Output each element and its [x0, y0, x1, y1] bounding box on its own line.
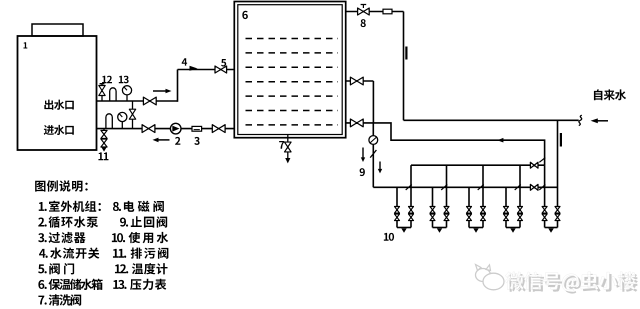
- wire outlet riser: [177, 70, 179, 102]
- wire faucet bottom group 5: [545, 227, 558, 229]
- label 8: [361, 19, 366, 27]
- solenoid valve 8: [358, 5, 370, 16]
- wire check-valve line lower: [372, 144, 374, 187]
- valve on tank-mid pipe: [350, 77, 363, 85]
- tap valve upper x483: [481, 207, 486, 214]
- watermark text highlight: [505, 272, 636, 292]
- tap valve upper x446: [444, 207, 449, 214]
- valve on hot manifold: [530, 162, 538, 168]
- legend item 过滤器: [38, 232, 85, 243]
- tap valve upper x397: [395, 207, 400, 214]
- thermometer (12) on outlet: [110, 88, 116, 101]
- flow arrow down (check line): [361, 148, 365, 163]
- wire inlet pipe: [96, 128, 234, 130]
- wire cold drop group 4: [505, 187, 507, 227]
- valve 5: [215, 66, 227, 73]
- label 13: [119, 76, 129, 84]
- legend item 阀门: [38, 263, 74, 274]
- legend item 排污阀: [113, 248, 168, 259]
- legend item 循环水: [38, 216, 98, 227]
- flow tick right (check line): [378, 162, 382, 174]
- tank water level dashes: [246, 39, 339, 125]
- label outlet 出水口: [44, 100, 73, 110]
- flow arrow right (outlet): [153, 89, 172, 94]
- tap valve upper x545: [542, 207, 547, 214]
- label 自来水: [594, 89, 626, 100]
- wire check-valve line upper: [372, 123, 374, 136]
- tap valve lower x520: [518, 214, 523, 221]
- wire hot drop group 3: [482, 165, 484, 227]
- wire pipe 4: [178, 69, 235, 71]
- check valve 9 flap: [370, 150, 376, 158]
- flow arrow on pipe 4: [190, 66, 198, 71]
- legend item 电磁阀: [113, 201, 164, 212]
- thermometer on inlet: [106, 114, 112, 129]
- pump 2: [170, 123, 181, 134]
- tap valve lower x411: [409, 214, 414, 221]
- outdoor unit U1 top cap: [32, 24, 83, 36]
- tap valve lower x469: [467, 214, 472, 221]
- faucet spout group 4: [510, 228, 515, 232]
- wire faucet bottom group 1: [397, 227, 411, 229]
- faucet spout group 5: [548, 228, 554, 232]
- valve on inlet pipe left: [142, 125, 155, 133]
- tank drain stub 7: [287, 135, 289, 143]
- legend item 保温储: [38, 279, 102, 290]
- tap water inlet arrow: [591, 118, 608, 123]
- tap valve upper x558: [555, 207, 560, 214]
- drain valve 11b: [101, 139, 107, 147]
- wire faucet bottom group 3: [469, 227, 483, 229]
- tank 6 outer wall: [234, 2, 345, 138]
- hop tick group 3: [478, 185, 484, 190]
- label 9: [360, 168, 365, 176]
- label 4: [182, 58, 187, 65]
- legend item 清洗阀: [38, 294, 81, 305]
- label 3: [194, 137, 199, 145]
- solenoid body: [383, 9, 392, 14]
- wire outlet pipe: [96, 100, 178, 102]
- tap valve lower x506: [504, 214, 509, 221]
- drain valve 11a: [101, 130, 107, 138]
- faucet spout group 3: [473, 228, 478, 232]
- wire cold drop group 1: [396, 187, 398, 227]
- tap valve lower x397: [395, 214, 400, 221]
- tap valve lower x432: [430, 214, 435, 221]
- faucet spout group 1: [401, 228, 406, 232]
- label 7: [279, 141, 284, 149]
- hop tick group 2: [441, 185, 447, 190]
- tap valve upper x432: [430, 207, 435, 214]
- valve on cold manifold: [530, 184, 538, 190]
- valve on tank-bottom pipe: [350, 119, 363, 127]
- tank 6 inner wall: [238, 5, 342, 135]
- tap valve lower x558: [555, 214, 560, 221]
- valve on inlet pipe right: [212, 125, 225, 133]
- legend item 室外机: [39, 201, 101, 212]
- tap valve upper x506: [504, 207, 509, 214]
- label 11: [98, 152, 108, 160]
- wire cold manifold: [373, 186, 557, 188]
- legend item 止回阀: [120, 216, 167, 227]
- wire hot drop group 2: [446, 165, 448, 227]
- wire faucet bottom group 4: [506, 227, 520, 229]
- hop tick at hot riser: [539, 158, 545, 163]
- wire cold drop from main: [557, 120, 559, 227]
- flow arrow left (inlet): [153, 138, 170, 143]
- wire tank-top pipe: [346, 11, 404, 13]
- check device circle: [369, 136, 378, 145]
- legend item 温度计: [115, 263, 168, 274]
- bypass valve: [129, 109, 135, 119]
- label 10: [384, 233, 394, 241]
- pressure gauge on inlet: [118, 112, 127, 128]
- flow tick on cold drop: [560, 133, 562, 147]
- drain stub 11: [103, 129, 105, 148]
- wire tank-bottom pipe: [346, 122, 374, 124]
- filter 3: [192, 126, 202, 131]
- wire hot branch: [373, 123, 544, 165]
- tap valve upper x411: [409, 207, 414, 214]
- wire cold drop group 2: [432, 187, 434, 227]
- pressure gauge (13) on outlet: [122, 86, 131, 101]
- flow tick on cold riser: [405, 47, 407, 60]
- legend item 压力表: [113, 279, 166, 290]
- wire hot drop group 4: [519, 165, 521, 227]
- hop tick group 5: [539, 185, 545, 190]
- wire tank-mid pipe: [346, 80, 374, 82]
- tank drain valve 7: [285, 142, 292, 152]
- hop tick group 1: [406, 185, 412, 190]
- wire bypass stub: [132, 101, 134, 129]
- wire cold main: [404, 119, 579, 121]
- faucet spout group 2: [437, 228, 442, 232]
- legend item 水流开: [39, 248, 99, 259]
- flow arrow left (hot branch): [497, 138, 510, 143]
- vent valve on outlet stub: [99, 86, 105, 96]
- wire mid riser: [372, 81, 374, 123]
- label 2: [175, 137, 180, 145]
- wire hot manifold: [411, 164, 545, 166]
- tap valve upper x520: [518, 207, 523, 214]
- label 5: [221, 59, 226, 67]
- hop tick group 4: [515, 185, 521, 190]
- legend title 图例说明: [35, 180, 88, 191]
- legend item 使用水: [112, 232, 168, 243]
- tap valve upper x469: [467, 207, 472, 214]
- tank drain outlet: [285, 152, 290, 164]
- pipe break squiggle: [579, 115, 582, 125]
- vent stub on outlet: [100, 84, 105, 101]
- label inlet 进水口: [44, 125, 74, 135]
- wire cold riser: [403, 12, 405, 121]
- watermark logo and text: [476, 265, 638, 294]
- label 12: [102, 76, 112, 84]
- tap valve lower x545: [542, 214, 547, 221]
- outdoor unit U1 body: [18, 36, 97, 150]
- label 6: [242, 11, 248, 19]
- label 1 (outdoor unit): [23, 42, 27, 48]
- tap valve lower x446: [444, 214, 449, 221]
- drain outlet arrow 11: [101, 147, 106, 151]
- tap valve lower x483: [481, 214, 486, 221]
- wire faucet bottom group 2: [433, 227, 447, 229]
- wire cold drop group 3: [468, 187, 470, 227]
- valve on outlet pipe: [143, 97, 156, 105]
- wire hot drop group 1: [410, 165, 412, 227]
- wire hot drop group 5: [544, 165, 546, 227]
